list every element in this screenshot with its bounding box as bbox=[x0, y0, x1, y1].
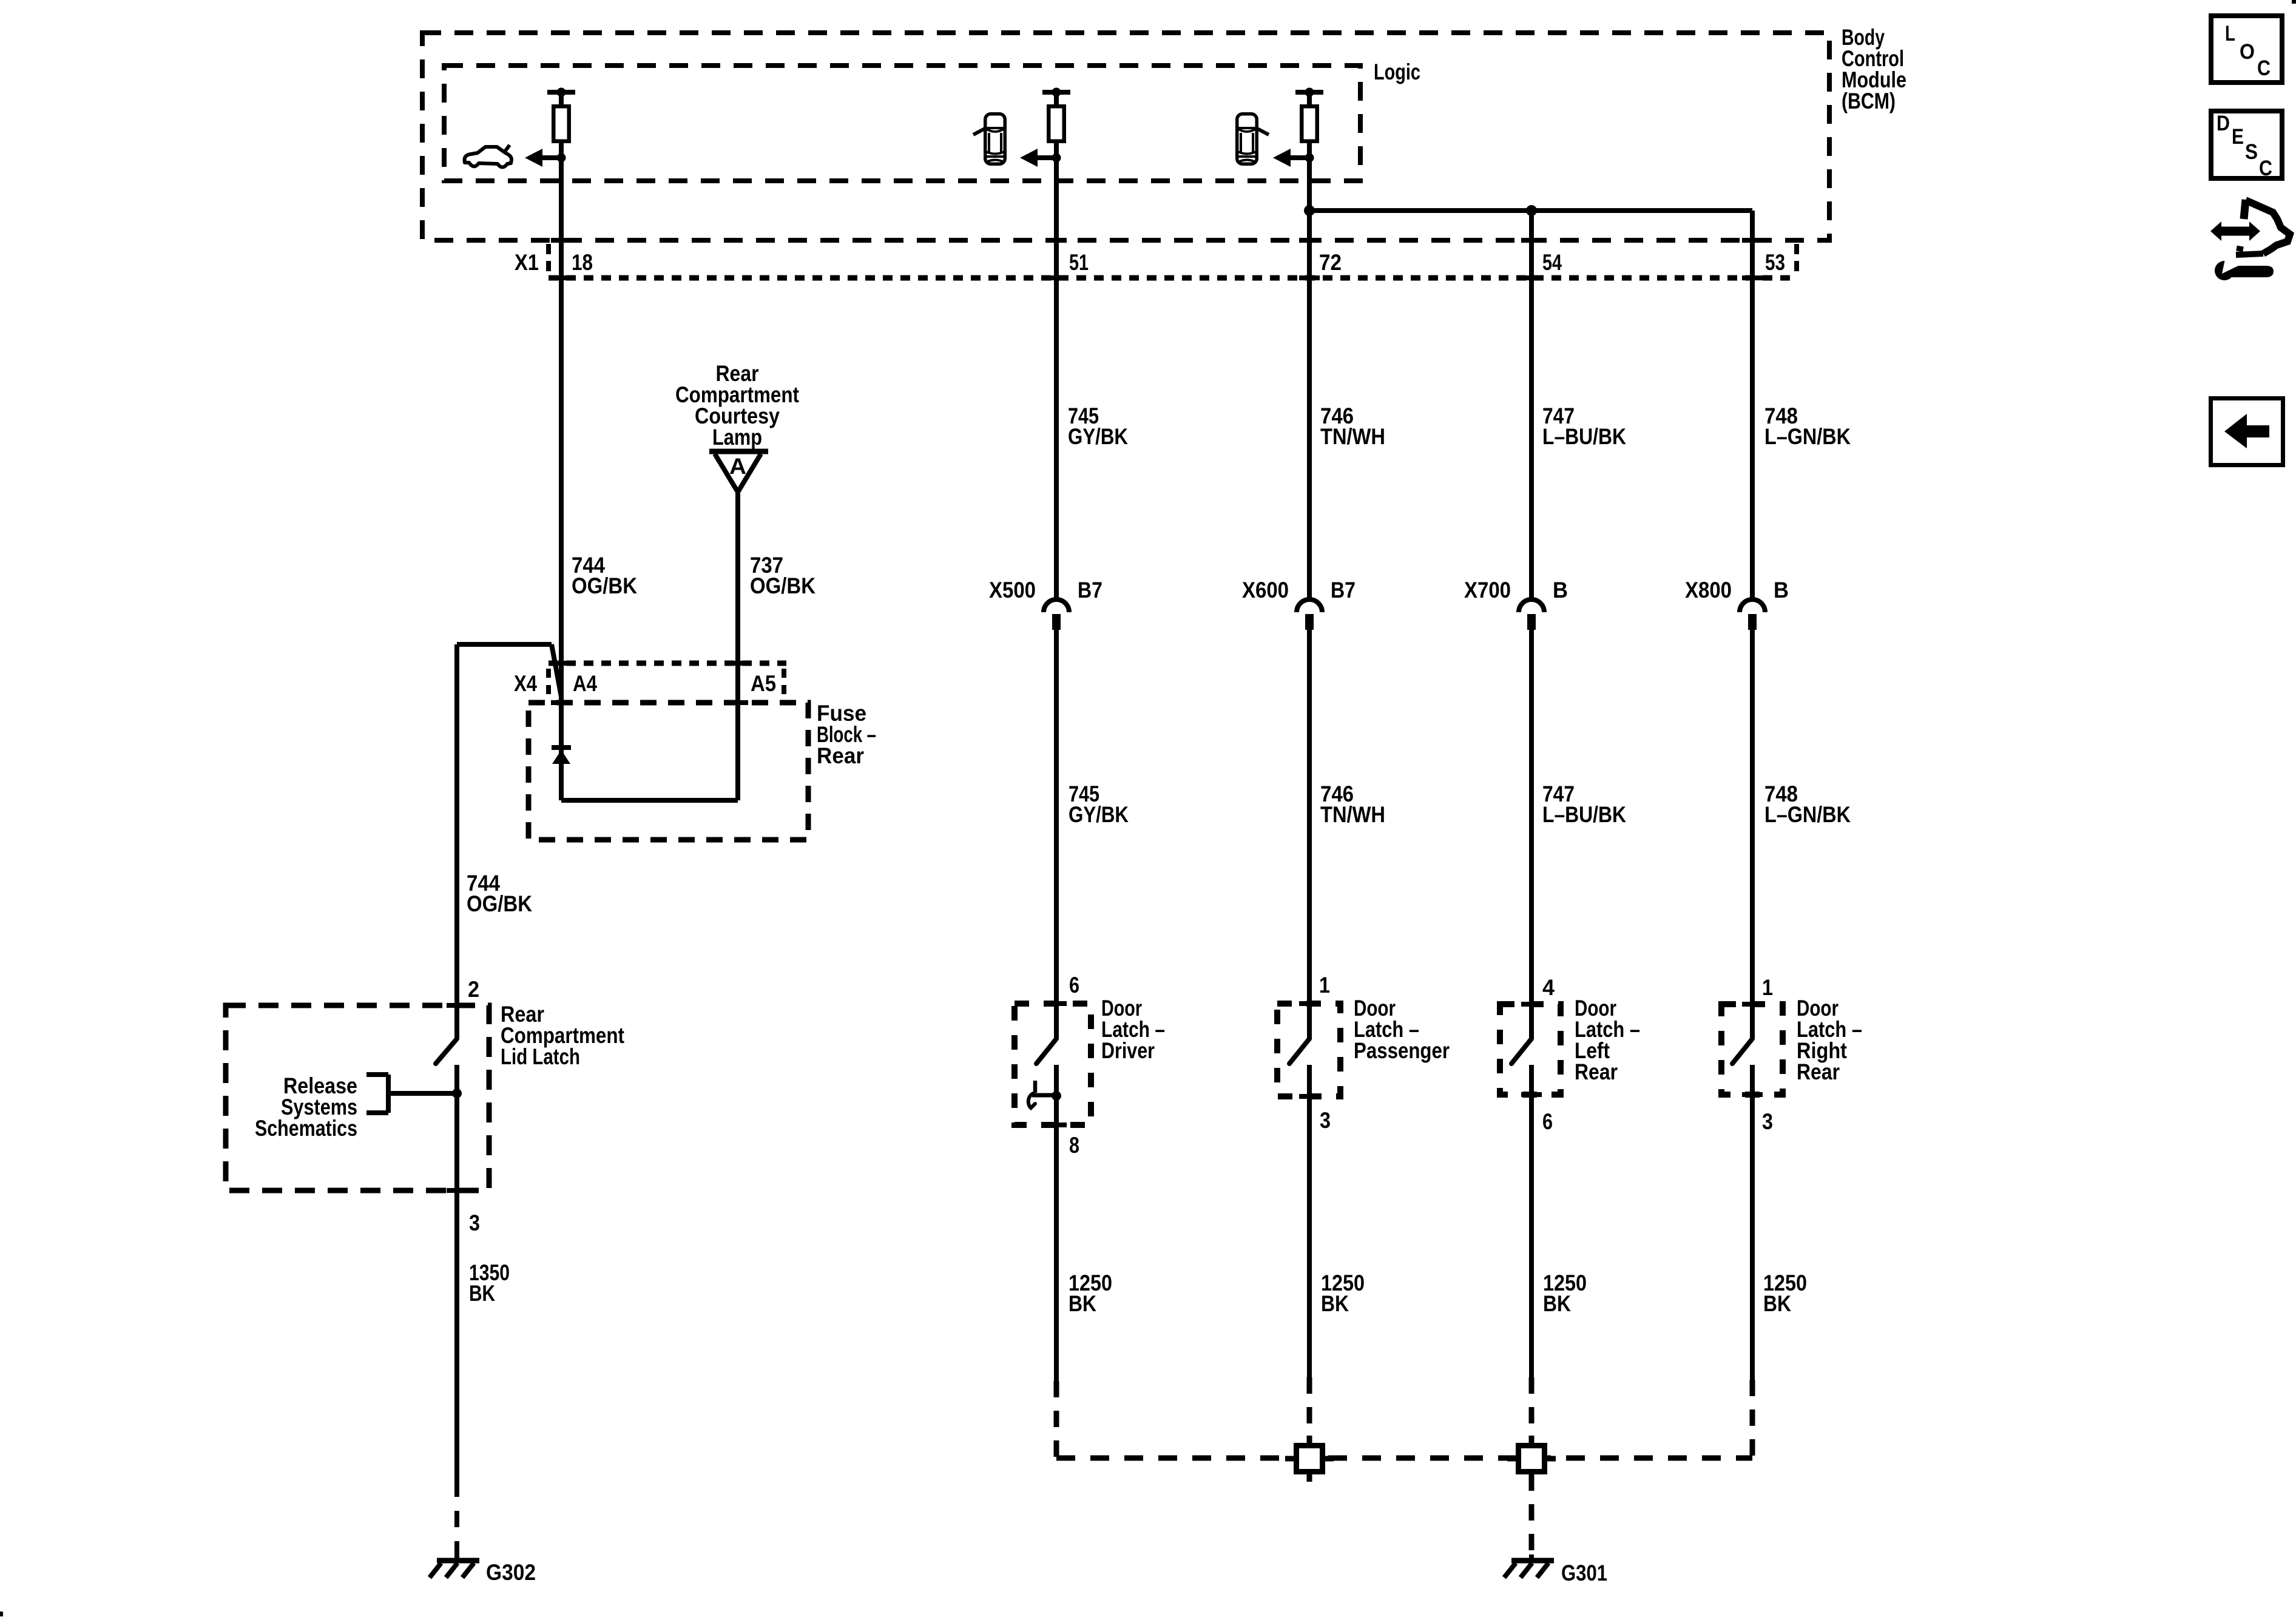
svg-text:54: 54 bbox=[1542, 250, 1562, 275]
svg-text:B7: B7 bbox=[1331, 578, 1356, 603]
svg-text:L–GN/BK: L–GN/BK bbox=[1764, 802, 1851, 827]
svg-text:X4: X4 bbox=[514, 671, 537, 696]
svg-text:TN/WH: TN/WH bbox=[1320, 424, 1385, 449]
svg-text:Passenger: Passenger bbox=[1354, 1038, 1450, 1063]
svg-text:A: A bbox=[729, 454, 746, 479]
svg-text:BK: BK bbox=[469, 1281, 495, 1306]
svg-text:3: 3 bbox=[1762, 1109, 1773, 1134]
svg-text:X800: X800 bbox=[1685, 578, 1732, 603]
svg-text:X500: X500 bbox=[989, 578, 1036, 603]
svg-text:Driver: Driver bbox=[1101, 1038, 1155, 1063]
svg-text:8: 8 bbox=[1069, 1133, 1079, 1158]
svg-text:3: 3 bbox=[469, 1210, 480, 1235]
svg-text:1: 1 bbox=[1762, 975, 1773, 1000]
svg-text:S: S bbox=[2245, 140, 2258, 164]
svg-text:OG/BK: OG/BK bbox=[572, 573, 637, 598]
svg-text:L–GN/BK: L–GN/BK bbox=[1764, 424, 1851, 449]
svg-text:GY/BK: GY/BK bbox=[1069, 802, 1129, 827]
svg-text:E: E bbox=[2232, 125, 2244, 149]
svg-text:X600: X600 bbox=[1242, 578, 1289, 603]
svg-text:A4: A4 bbox=[573, 671, 597, 696]
svg-text:L–BU/BK: L–BU/BK bbox=[1542, 424, 1626, 449]
svg-text:B: B bbox=[1553, 578, 1568, 603]
svg-text:OG/BK: OG/BK bbox=[750, 573, 815, 598]
svg-text:53: 53 bbox=[1765, 250, 1785, 275]
svg-text:2: 2 bbox=[468, 977, 479, 1002]
svg-text:G301: G301 bbox=[1561, 1561, 1607, 1585]
svg-text:A5: A5 bbox=[751, 671, 776, 696]
svg-text:L: L bbox=[2225, 22, 2235, 46]
svg-text:OG/BK: OG/BK bbox=[467, 891, 532, 916]
svg-text:(BCM): (BCM) bbox=[1842, 89, 1896, 113]
svg-text:X700: X700 bbox=[1464, 578, 1511, 603]
svg-text:B7: B7 bbox=[1078, 578, 1102, 603]
svg-text:C: C bbox=[2257, 56, 2271, 80]
svg-text:51: 51 bbox=[1069, 250, 1089, 275]
svg-text:72: 72 bbox=[1319, 250, 1342, 275]
svg-text:X1: X1 bbox=[515, 250, 539, 275]
svg-text:3: 3 bbox=[1320, 1108, 1331, 1133]
svg-text:O: O bbox=[2240, 40, 2255, 64]
svg-text:B: B bbox=[1774, 578, 1789, 603]
svg-text:Rear: Rear bbox=[1575, 1059, 1618, 1084]
svg-text:D: D bbox=[2217, 112, 2230, 135]
svg-text:4: 4 bbox=[1542, 975, 1555, 1000]
svg-text:6: 6 bbox=[1069, 973, 1079, 998]
svg-text:C: C bbox=[2259, 157, 2272, 180]
svg-text:1: 1 bbox=[1319, 973, 1330, 998]
svg-text:BK: BK bbox=[1543, 1291, 1571, 1316]
svg-text:6: 6 bbox=[1542, 1109, 1553, 1134]
svg-text:G302: G302 bbox=[486, 1560, 536, 1585]
svg-text:BK: BK bbox=[1069, 1291, 1096, 1316]
svg-text:18: 18 bbox=[572, 250, 593, 275]
svg-text:Schematics: Schematics bbox=[255, 1116, 357, 1141]
svg-text:BK: BK bbox=[1321, 1291, 1349, 1316]
svg-text:Lamp: Lamp bbox=[712, 425, 762, 450]
svg-text:BK: BK bbox=[1763, 1291, 1791, 1316]
svg-text:TN/WH: TN/WH bbox=[1320, 802, 1385, 827]
svg-text:Rear: Rear bbox=[817, 743, 864, 768]
svg-text:Lid Latch: Lid Latch bbox=[501, 1044, 580, 1069]
svg-text:Logic: Logic bbox=[1374, 59, 1420, 84]
svg-text:Rear: Rear bbox=[1797, 1059, 1840, 1084]
svg-text:L–BU/BK: L–BU/BK bbox=[1542, 802, 1626, 827]
svg-text:GY/BK: GY/BK bbox=[1068, 424, 1128, 449]
